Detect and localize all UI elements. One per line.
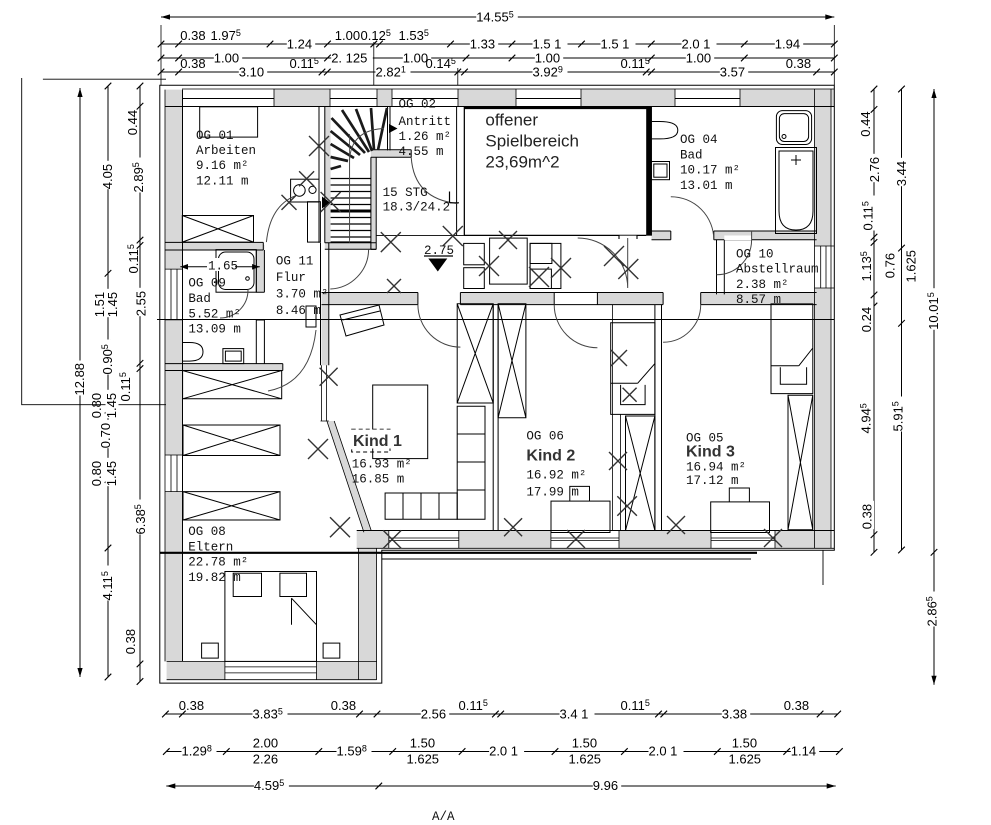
top wall inner face xyxy=(165,106,834,108)
svg-text:1.50: 1.50 xyxy=(732,736,757,751)
svg-text:22.78 m²: 22.78 m² xyxy=(188,556,248,570)
eltern pillow2 xyxy=(280,573,307,596)
svg-text:17.99 m: 17.99 m xyxy=(526,486,579,500)
bottom wall window1 glass xyxy=(389,531,459,549)
x bottom wall 3 xyxy=(567,530,585,548)
wall right exterior lower xyxy=(815,288,832,548)
stair center rail xyxy=(349,134,351,243)
door arc spielbereich xyxy=(578,238,628,288)
x dining mid xyxy=(529,267,549,287)
label og11 flur xyxy=(276,255,329,319)
wall eltern wing right xyxy=(359,548,377,679)
kind1 wardrobe xyxy=(457,304,493,403)
svg-text:0.24: 0.24 xyxy=(859,307,874,332)
stair stringer left xyxy=(325,107,331,243)
svg-text:16.92 m²: 16.92 m² xyxy=(526,469,586,483)
wall stub kitchen xyxy=(308,202,321,242)
svg-text:1.00: 1.00 xyxy=(335,28,360,43)
bottom wall window2 glass xyxy=(551,531,619,549)
kind1 shelf vertical xyxy=(457,406,485,519)
section line thin xyxy=(157,319,834,321)
svg-text:0.80: 0.80 xyxy=(89,393,104,418)
svg-text:3.70 m²: 3.70 m² xyxy=(276,288,329,302)
kind2 bed xyxy=(551,501,610,532)
label og02 antritt xyxy=(399,98,452,160)
og09 shower xyxy=(216,250,256,293)
svg-text:1.26 m²: 1.26 m² xyxy=(399,130,452,144)
label og08 eltern xyxy=(188,525,248,585)
eltern nightstand1 xyxy=(202,643,219,658)
label stair xyxy=(383,186,451,215)
wall og09 bottom xyxy=(165,364,283,371)
bottom wall inner face xyxy=(357,530,835,532)
svg-text:13.01 m: 13.01 m xyxy=(680,179,733,193)
wall stair bottom edges xyxy=(325,243,376,250)
svg-text:1.00: 1.00 xyxy=(214,51,239,66)
stair newel wall edges xyxy=(371,150,411,250)
door arc og04 xyxy=(671,197,714,240)
kind2 chair xyxy=(621,385,646,405)
svg-text:0.38: 0.38 xyxy=(123,629,138,654)
svg-text:Antritt: Antritt xyxy=(399,115,452,129)
svg-text:5.52 m²: 5.52 m² xyxy=(188,307,241,321)
door jambs hall xyxy=(619,232,637,240)
x hall wall left xyxy=(381,232,401,252)
svg-text:2.0 1: 2.0 1 xyxy=(649,744,678,759)
top wall pier edges xyxy=(182,89,834,107)
kind1 diagonal edges xyxy=(327,421,371,532)
svg-text:9.96: 9.96 xyxy=(593,778,618,793)
label og01 arbeiten xyxy=(196,129,256,189)
eltern wardrobe1 xyxy=(183,371,282,399)
left wall window eltern glass xyxy=(165,455,183,492)
svg-text:OG 08: OG 08 xyxy=(188,525,226,539)
stair antritt arrow xyxy=(389,124,398,133)
wall og04 bottom right seg xyxy=(714,231,817,240)
wall eltern wing bottom right xyxy=(317,661,377,679)
svg-text:OG 11: OG 11 xyxy=(276,255,314,269)
svg-text:0.70: 0.70 xyxy=(98,423,113,448)
svg-text:A/A: A/A xyxy=(432,810,455,824)
kind2 side lines xyxy=(612,305,620,531)
door arc kind3 xyxy=(663,305,701,343)
left wall inner face xyxy=(182,90,184,662)
svg-text:1.33: 1.33 xyxy=(470,37,495,52)
svg-text:Bad: Bad xyxy=(188,292,211,306)
arbeiten wardrobe xyxy=(182,216,253,243)
marker 2.75 underline xyxy=(424,255,453,257)
svg-text:Spielbereich: Spielbereich xyxy=(485,132,579,151)
dining chair bl xyxy=(464,268,485,289)
og09 sink xyxy=(223,349,244,364)
svg-text:OG 02: OG 02 xyxy=(399,98,437,112)
svg-text:2.0 1: 2.0 1 xyxy=(489,744,518,759)
eltern bottom window glass xyxy=(225,661,317,679)
x diag top xyxy=(308,439,328,459)
svg-text:OG 06: OG 06 xyxy=(526,430,564,444)
stair walking line xyxy=(350,129,384,241)
x dining right xyxy=(551,258,571,278)
kind3 bed xyxy=(711,502,770,533)
svg-text:17.12 m: 17.12 m xyxy=(686,474,739,488)
label og10 abstellraum xyxy=(736,248,819,308)
svg-text:OG 01: OG 01 xyxy=(196,129,234,143)
x kind2 desk xyxy=(611,350,627,366)
svg-text:12.11 m: 12.11 m xyxy=(196,175,249,189)
eltern bed xyxy=(225,572,317,662)
eltern wardrobe3 xyxy=(183,492,280,520)
section aux line right xyxy=(382,550,823,585)
svg-text:3.57: 3.57 xyxy=(720,65,745,80)
svg-text:0.38: 0.38 xyxy=(331,698,356,713)
svg-text:Kind 3: Kind 3 xyxy=(686,444,735,461)
svg-text:1.625: 1.625 xyxy=(569,752,602,767)
door og10 gap xyxy=(724,236,751,241)
svg-text:1.00: 1.00 xyxy=(686,51,711,66)
svg-text:19.82 m: 19.82 m xyxy=(188,571,241,585)
wall og09 shower stub xyxy=(256,245,264,292)
svg-text:0.76: 0.76 xyxy=(883,253,898,278)
door arc kind1 xyxy=(418,305,461,348)
left wall window og09 glass xyxy=(165,269,183,320)
wall kind1 left upper xyxy=(322,305,329,366)
wall og09 top xyxy=(165,242,263,250)
svg-text:2.55: 2.55 xyxy=(134,291,149,316)
wall bottom pier 2 xyxy=(459,531,551,549)
margin frame left xyxy=(22,78,166,405)
svg-text:2.76: 2.76 xyxy=(867,157,882,182)
stair lower arrow xyxy=(322,197,330,209)
x bottom wall 1 xyxy=(383,530,401,548)
door arc kind2 xyxy=(554,305,597,348)
GRAYS xyxy=(165,89,834,680)
svg-text:0.44: 0.44 xyxy=(125,110,140,135)
wall arbeiten stair edges xyxy=(319,107,325,243)
wall kind2 kind3 edges xyxy=(655,305,662,531)
kind2 wardrobe left xyxy=(498,304,526,418)
svg-text:8.46 m: 8.46 m xyxy=(276,304,321,318)
wall flur stub xyxy=(306,306,316,327)
label spielbereich xyxy=(485,111,579,172)
x kitchen top xyxy=(299,171,314,186)
kind3 pillow xyxy=(729,488,749,502)
svg-text:0.38: 0.38 xyxy=(860,504,875,529)
og09 toilet xyxy=(183,343,204,362)
wall top pier 5 xyxy=(581,89,675,107)
svg-text:offener: offener xyxy=(485,111,538,130)
dining chair tr xyxy=(530,243,552,263)
stair newel wall vertical xyxy=(371,150,376,250)
door arc antritt xyxy=(411,157,457,203)
wall antritt stair edges xyxy=(388,107,391,150)
eltern wing right wall edges xyxy=(359,548,377,679)
wall bottom pier 3 xyxy=(619,531,711,549)
svg-text:2.00: 2.00 xyxy=(253,736,278,751)
svg-text:2.0 1: 2.0 1 xyxy=(682,37,711,52)
svg-text:Arbeiten: Arbeiten xyxy=(196,144,256,158)
og04 basin oval xyxy=(652,122,678,139)
svg-text:8.57 m: 8.57 m xyxy=(736,293,781,307)
FURNITURE xyxy=(180,107,816,662)
wall kind top seg3 xyxy=(597,293,663,305)
og04 sink xyxy=(776,111,811,145)
kind3 chair xyxy=(780,367,806,384)
svg-text:3.4 1: 3.4 1 xyxy=(560,707,589,722)
svg-text:1.24: 1.24 xyxy=(287,37,312,52)
svg-text:Eltern: Eltern xyxy=(188,540,233,554)
x kind1 window xyxy=(320,368,338,386)
kitchen appliance xyxy=(291,179,319,202)
og04 square fixture xyxy=(651,162,669,180)
kind1 window glass xyxy=(321,365,329,421)
label 1.65 xyxy=(207,258,238,274)
wall og09 right edges xyxy=(256,250,264,364)
x stair wall lower xyxy=(321,192,341,212)
right wall og10 window xyxy=(815,246,835,288)
stair thick tread xyxy=(331,210,371,213)
svg-text:13.09 m: 13.09 m xyxy=(188,323,241,337)
svg-text:10.015: 10.015 xyxy=(926,292,941,330)
x door spiel left xyxy=(604,246,624,266)
x kind2 chair xyxy=(623,388,637,402)
kind1 tilted desk xyxy=(340,305,384,336)
XMARKS xyxy=(282,136,783,548)
marker 2.75 triangle xyxy=(428,259,447,272)
stair fan treads xyxy=(331,108,387,169)
svg-text:14.555: 14.555 xyxy=(476,10,514,25)
svg-text:Kind 1: Kind 1 xyxy=(353,433,402,450)
kind1 shelf horizontal xyxy=(385,493,457,519)
spielbereich top thick line xyxy=(465,107,652,110)
svg-text:1.45: 1.45 xyxy=(105,292,120,317)
right wall gray edges xyxy=(815,89,832,548)
svg-text:10.17 m²: 10.17 m² xyxy=(680,164,740,178)
svg-text:2.38 m²: 2.38 m² xyxy=(736,278,789,292)
wall kind1 left edges xyxy=(321,243,329,366)
WALLLINES xyxy=(22,78,835,683)
svg-text:2. 125: 2. 125 xyxy=(331,51,367,66)
svg-text:1.50: 1.50 xyxy=(410,736,435,751)
wall antritt spielbereich edges xyxy=(457,107,465,236)
dining table xyxy=(490,238,528,284)
stair lower treads xyxy=(331,179,371,243)
svg-text:1.45: 1.45 xyxy=(104,461,119,486)
dining bench right xyxy=(530,243,561,288)
eltern blanket fold xyxy=(292,598,317,625)
spielbereich bad bold wall xyxy=(646,107,651,236)
wall kind top edges xyxy=(322,293,817,305)
wall bottom pier 4 xyxy=(775,531,831,549)
kind1 dashed unit xyxy=(352,429,390,452)
label kind2 xyxy=(526,430,586,500)
eltern wardrobe2 xyxy=(183,425,280,456)
svg-text:OG 10: OG 10 xyxy=(736,248,774,262)
svg-text:0.44: 0.44 xyxy=(858,111,873,136)
wall right exterior upper xyxy=(815,89,832,246)
svg-text:3.44: 3.44 xyxy=(894,161,909,186)
eltern pillow1 xyxy=(233,573,261,596)
wall eltern wing bottom left xyxy=(167,661,225,679)
svg-text:4.55 m: 4.55 m xyxy=(399,145,444,159)
svg-text:0.80: 0.80 xyxy=(89,461,104,486)
og04 bathtub xyxy=(776,148,817,234)
wall left exterior mid xyxy=(165,320,183,455)
label kind3 xyxy=(686,432,746,489)
dining chair tl xyxy=(464,243,485,264)
svg-text:9.16 m²: 9.16 m² xyxy=(196,159,249,173)
spielbereich box xyxy=(465,107,652,236)
x door spiel right xyxy=(618,259,638,279)
svg-text:1.50: 1.50 xyxy=(572,736,597,751)
x bottom wall 5 xyxy=(764,529,782,547)
wall og09 top edges xyxy=(165,242,263,250)
section line thick xyxy=(160,552,757,554)
left wall gray edge xyxy=(164,90,166,662)
svg-text:0.38: 0.38 xyxy=(180,28,205,43)
svg-text:0.38: 0.38 xyxy=(786,56,811,71)
wall og04 bottom edges xyxy=(652,231,817,240)
x kind2 line 2 xyxy=(617,496,637,516)
x table top xyxy=(499,231,517,249)
svg-text:1.00: 1.00 xyxy=(535,51,560,66)
wall kind top seg1 xyxy=(322,293,418,305)
kind2 wardrobe lower xyxy=(626,416,655,531)
door arc flur eltern xyxy=(268,330,316,391)
x hall kind junction xyxy=(387,279,401,293)
label kind1 xyxy=(350,430,412,487)
door arc arbeiten xyxy=(266,196,295,242)
top wall glass line xyxy=(182,98,740,100)
svg-text:Bad: Bad xyxy=(680,148,703,162)
svg-text:23,69m^2: 23,69m^2 xyxy=(485,153,559,172)
svg-text:1.00: 1.00 xyxy=(403,51,428,66)
svg-text:15 STG: 15 STG xyxy=(383,186,428,200)
label og04 bad xyxy=(680,133,740,193)
zone line spielbereich bottom xyxy=(376,235,646,237)
svg-text:16.94 m²: 16.94 m² xyxy=(686,461,746,475)
wall stair bottom xyxy=(325,243,376,250)
kind1 bed xyxy=(373,385,428,459)
eltern wing bottom edges xyxy=(167,661,377,679)
svg-text:3.10: 3.10 xyxy=(239,65,264,80)
wall top pier 6 xyxy=(740,89,834,107)
wall og04 bottom left seg xyxy=(652,231,671,240)
svg-text:Flur: Flur xyxy=(276,271,306,285)
svg-text:Kind 2: Kind 2 xyxy=(526,448,575,465)
wall top pier 3 xyxy=(377,89,392,107)
kind2 pillow xyxy=(570,486,590,501)
svg-text:1.14: 1.14 xyxy=(791,744,816,759)
arbeiten desk xyxy=(200,107,258,137)
svg-text:2.75: 2.75 xyxy=(424,244,454,258)
svg-text:1.625: 1.625 xyxy=(729,752,762,767)
svg-text:16.85 m: 16.85 m xyxy=(352,473,405,487)
x kind2 line 1 xyxy=(609,452,627,470)
svg-text:2.56: 2.56 xyxy=(421,707,446,722)
dim 1.65 line xyxy=(180,266,259,268)
door arc og10 xyxy=(717,231,752,275)
x diag bottom xyxy=(330,517,350,537)
wall og09 bottom edges xyxy=(165,364,283,371)
wall top pier 2 xyxy=(274,89,330,107)
x zone line left xyxy=(443,226,463,246)
bottom wall gray edge xyxy=(357,547,835,549)
wall kind1 kind2 edges xyxy=(493,305,498,531)
wall kind1 diagonal xyxy=(327,421,371,532)
svg-text:3.38: 3.38 xyxy=(722,707,747,722)
wall left exterior upper xyxy=(165,90,183,270)
x stair wall upper xyxy=(309,136,329,156)
door stop mark xyxy=(450,192,460,203)
svg-text:1.65: 1.65 xyxy=(208,260,238,274)
svg-text:18.3/24.2: 18.3/24.2 xyxy=(383,201,451,215)
svg-text:OG 04: OG 04 xyxy=(680,133,718,147)
svg-text:1.45: 1.45 xyxy=(104,393,119,418)
wall kind top seg4 xyxy=(701,293,817,305)
door arc hall xyxy=(330,249,368,289)
kind2 desk block xyxy=(611,323,655,415)
wall top pier 4 xyxy=(458,89,516,107)
door arc og09 xyxy=(220,290,248,318)
x dining left xyxy=(479,256,499,276)
svg-text:12.88: 12.88 xyxy=(72,363,87,396)
svg-text:0.38: 0.38 xyxy=(180,56,205,71)
x bottom wall 4 xyxy=(667,516,685,534)
svg-text:1.94: 1.94 xyxy=(775,37,800,52)
stair newel wall horizontal xyxy=(371,150,411,157)
x kitchen left xyxy=(282,195,297,210)
svg-text:1.625: 1.625 xyxy=(407,752,440,767)
svg-text:16.93 m²: 16.93 m² xyxy=(352,458,412,472)
svg-text:1.625: 1.625 xyxy=(904,250,919,283)
svg-text:OG 09: OG 09 xyxy=(188,277,226,291)
label og09 bad xyxy=(188,277,241,337)
wall bottom pier 1 xyxy=(357,531,389,549)
wall left exterior lower xyxy=(165,492,183,662)
svg-text:0.38: 0.38 xyxy=(179,698,204,713)
svg-text:Abstellraum: Abstellraum xyxy=(736,263,819,277)
svg-text:1.5 1: 1.5 1 xyxy=(533,37,562,52)
kind3 desk block xyxy=(771,304,813,394)
x bottom wall 2 xyxy=(504,518,522,536)
wall og10 left edges xyxy=(717,240,725,295)
dining chair br xyxy=(530,269,551,288)
kind3 wardrobe xyxy=(788,395,813,530)
wall kind top seg2 xyxy=(460,293,554,305)
svg-text:2.26: 2.26 xyxy=(253,752,278,767)
svg-text:4.05: 4.05 xyxy=(100,164,115,189)
svg-text:0.38: 0.38 xyxy=(784,698,809,713)
bottom wall window3 glass xyxy=(711,531,775,549)
eltern nightstand2 xyxy=(323,643,340,658)
outer boundary xyxy=(160,85,835,683)
svg-text:1.5 1: 1.5 1 xyxy=(601,37,630,52)
